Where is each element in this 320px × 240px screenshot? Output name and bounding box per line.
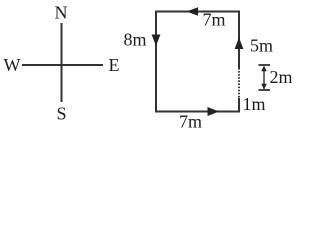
svg-text:1m: 1m — [242, 94, 265, 114]
svg-text:7m: 7m — [179, 112, 202, 132]
svg-text:E: E — [109, 55, 120, 75]
svg-text:8m: 8m — [123, 30, 146, 50]
rectangle top edge — [155, 11, 240, 13]
rectangle right edge solid bottom (1m part) — [238, 98, 240, 113]
arrowhead left on top edge — [187, 7, 199, 16]
svg-text:5m: 5m — [250, 36, 273, 56]
svg-text:2m: 2m — [270, 67, 293, 87]
arrowhead up on right edge — [235, 38, 244, 50]
rectangle left edge — [155, 11, 157, 113]
2m measure bottom cap — [259, 89, 271, 91]
arrowhead down on left edge — [152, 35, 161, 47]
svg-text:S: S — [56, 104, 66, 124]
svg-text:7m: 7m — [202, 10, 225, 30]
2m measure top cap — [259, 64, 271, 66]
svg-text:N: N — [55, 3, 68, 23]
rectangle right edge solid top (5m part) — [238, 11, 240, 69]
svg-text:W: W — [4, 55, 21, 75]
compass horizontal line (W-E axis) — [22, 64, 103, 66]
rectangle right edge dotted (2m gap) — [238, 68, 240, 98]
compass vertical line (N-S axis) — [61, 23, 63, 102]
2m measure stem double arrow — [263, 67, 265, 90]
arrowhead right on bottom edge — [208, 107, 220, 116]
rectangle bottom edge — [155, 111, 240, 113]
